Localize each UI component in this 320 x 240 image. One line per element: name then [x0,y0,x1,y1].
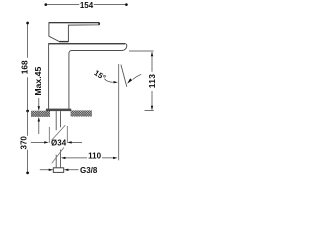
svg-text:Ø34: Ø34 [51,138,67,147]
svg-text:G3/8: G3/8 [80,166,98,175]
svg-text:113: 113 [147,74,157,88]
svg-text:Max.45: Max.45 [33,67,43,96]
svg-text:168: 168 [19,60,29,74]
svg-text:110: 110 [88,151,101,160]
svg-text:154: 154 [80,1,94,10]
svg-text:370: 370 [19,136,28,150]
